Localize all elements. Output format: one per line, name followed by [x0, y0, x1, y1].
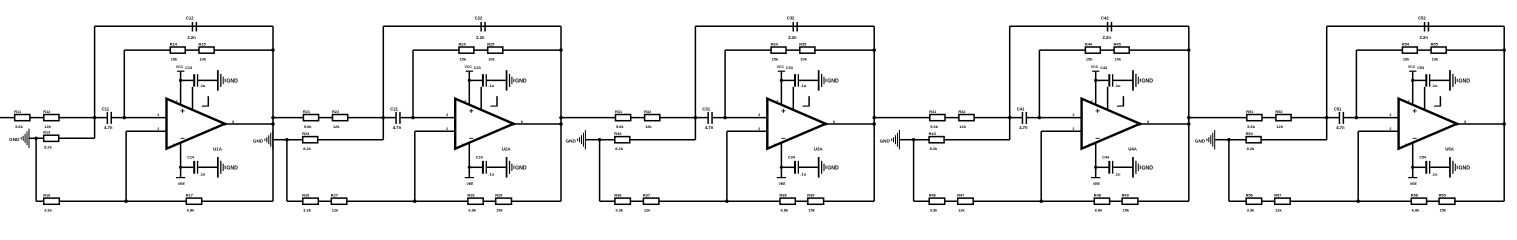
resistor R14 [170, 41, 185, 61]
node V- junction [179, 166, 182, 169]
svg-text:R59: R59 [1439, 192, 1447, 197]
op-amp U3A [758, 99, 835, 152]
svg-text:6: 6 [1147, 120, 1149, 124]
resistor R39 [807, 192, 823, 212]
svg-text:2: 2 [1073, 127, 1075, 131]
wire V+ to cap [469, 79, 482, 81]
wire inverting vertical [726, 131, 728, 201]
node output junction [1503, 122, 1506, 125]
wire left vertical (node A) [1009, 26, 1011, 140]
svg-text:C13: C13 [185, 66, 192, 70]
ground (V+ decoupling) [217, 70, 238, 91]
svg-text:R57: R57 [1274, 192, 1281, 197]
node output junction [559, 122, 562, 125]
svg-text:15k: 15k [496, 207, 503, 212]
node next-stage tap junction [1187, 116, 1190, 119]
svg-text:2.2n: 2.2n [1420, 35, 1429, 40]
svg-text:R36: R36 [614, 192, 622, 197]
svg-text:15k: 15k [772, 56, 779, 61]
resistor R56 [1246, 192, 1262, 212]
svg-text:GND: GND [827, 79, 839, 85]
svg-text:C44: C44 [1102, 156, 1110, 160]
svg-text:4: 4 [1405, 143, 1407, 147]
ground (V+ decoupling) [818, 70, 839, 91]
wire node B vertical [412, 50, 414, 118]
wire signal row right [400, 117, 456, 119]
capacitor C13 [185, 66, 206, 88]
node feedback-column junction [559, 48, 562, 51]
svg-text:R37: R37 [643, 192, 650, 197]
svg-text:VEE: VEE [467, 182, 475, 186]
node ground junction [1227, 138, 1230, 141]
svg-text:12k: 12k [645, 124, 652, 129]
wire ground vertical [599, 140, 601, 202]
wire inverting vertical [1357, 131, 1359, 201]
resistor R38 [780, 192, 796, 212]
resistor R34 [771, 41, 786, 61]
wire cap to ground [1113, 79, 1132, 81]
svg-text:4.7n: 4.7n [104, 125, 113, 130]
resistor R17 [186, 192, 202, 212]
wire signal row right [1343, 117, 1399, 119]
svg-text:C43: C43 [1100, 66, 1107, 70]
node output junction [873, 122, 876, 125]
wire ground row [1229, 139, 1327, 141]
node op-amp output [512, 123, 515, 126]
capacitor C22 [475, 16, 486, 41]
resistor R52 [1275, 109, 1291, 129]
ground (V- decoupling) [1132, 157, 1153, 178]
svg-text:R47: R47 [957, 192, 964, 197]
svg-text:GND: GND [880, 139, 891, 144]
resistor R44 [1085, 41, 1100, 61]
svg-text:8.2k: 8.2k [930, 146, 938, 151]
op-amp U1A [157, 99, 234, 152]
ground (input reference) [566, 130, 600, 150]
wire V+ to cap [181, 79, 194, 81]
capacitor C21 [390, 106, 401, 130]
node A junction [1008, 116, 1011, 119]
svg-text:4: 4 [774, 143, 776, 147]
power flag VEE [1408, 178, 1417, 186]
svg-text:C23: C23 [474, 66, 481, 70]
svg-text:C52: C52 [1418, 16, 1426, 21]
resistor R28 [467, 192, 483, 212]
wire feedback resistor row [413, 49, 561, 51]
wire signal row left [561, 117, 708, 119]
node ground junction [285, 138, 288, 141]
resistor R41 [929, 109, 945, 129]
node bottom junction [1357, 200, 1360, 203]
resistor R22 [332, 109, 348, 129]
resistor R16 [43, 192, 59, 212]
svg-text:8.2k: 8.2k [44, 145, 52, 150]
capacitor C11 [102, 106, 113, 130]
resistor R57 [1274, 192, 1290, 212]
capacitor C32 [787, 16, 798, 41]
svg-text:C51: C51 [1334, 106, 1342, 111]
power flag VEE [465, 178, 474, 186]
svg-text:GND: GND [566, 139, 577, 144]
wire top feedback row [1010, 25, 1189, 27]
svg-text:R26: R26 [302, 192, 310, 197]
resistor R37 [643, 192, 659, 212]
node output junction [1187, 122, 1190, 125]
svg-text:R16: R16 [43, 192, 51, 197]
wire V+ to cap [781, 79, 794, 81]
ground (V+ decoupling) [1449, 70, 1470, 91]
wire ground row [914, 139, 1010, 141]
wire inner stub [192, 87, 194, 110]
wire output [826, 123, 875, 125]
svg-text:3: 3 [1390, 113, 1392, 117]
resistor R23 [302, 131, 318, 151]
node op-amp output [223, 123, 226, 126]
svg-text:15k: 15k [1403, 56, 1410, 61]
node A junction [93, 116, 96, 119]
svg-text:R25: R25 [487, 41, 495, 46]
svg-text:C14: C14 [187, 156, 195, 160]
pin stub [1434, 96, 1441, 106]
svg-text:2: 2 [758, 127, 760, 131]
svg-text:8.2k: 8.2k [615, 146, 623, 151]
svg-text:12k: 12k [1275, 207, 1282, 212]
node B junction [1355, 116, 1358, 119]
node op-amp output [1138, 123, 1141, 126]
svg-text:12k: 12k [332, 207, 339, 212]
svg-text:R15: R15 [199, 41, 207, 46]
svg-text:15k: 15k [171, 56, 178, 61]
resistor R15 [199, 41, 215, 61]
wire signal row left [1189, 117, 1340, 119]
wire V+ pin [1412, 72, 1414, 105]
svg-text:VEE: VEE [178, 182, 186, 186]
svg-text:U1A: U1A [213, 146, 223, 151]
wire feedback resistor row [725, 49, 874, 51]
wire signal row right [1026, 117, 1082, 119]
wire inner stub [792, 87, 794, 110]
svg-text:15k: 15k [1440, 207, 1447, 212]
wire V+ pin [468, 72, 470, 105]
wire V- to cap [181, 166, 194, 168]
power flag VEE [176, 178, 185, 186]
wire cap to ground [487, 166, 506, 168]
svg-text:.1u: .1u [200, 83, 206, 88]
node feedback-column junction [1187, 48, 1190, 51]
node feedback-column junction [271, 48, 274, 51]
wire inner stub [1107, 87, 1109, 110]
wire top feedback row [695, 25, 874, 27]
resistor R49 [1122, 192, 1138, 212]
resistor R21 [303, 109, 319, 129]
wire signal row right [111, 117, 167, 119]
wire V- pin [1412, 143, 1414, 178]
wire left vertical (node A) [694, 26, 696, 140]
svg-text:R42: R42 [958, 109, 966, 114]
ground (input reference) [9, 129, 36, 149]
svg-text:7: 7 [1408, 99, 1410, 103]
svg-text:3.3k: 3.3k [44, 207, 52, 212]
capacitor C53 [1417, 66, 1438, 88]
svg-text:VCC: VCC [777, 65, 785, 69]
wire output column [1503, 26, 1505, 201]
node V+ junction [468, 79, 471, 82]
svg-text:R43: R43 [929, 131, 937, 136]
svg-text:10k: 10k [200, 56, 207, 61]
node V- junction [468, 166, 471, 169]
svg-text:3.3k: 3.3k [1247, 207, 1255, 212]
svg-text:6: 6 [1464, 120, 1466, 124]
svg-text:R27: R27 [331, 192, 338, 197]
node bottom junction [413, 200, 416, 203]
svg-text:12k: 12k [959, 124, 966, 129]
wire ground vertical [286, 140, 288, 202]
svg-text:4.7n: 4.7n [1019, 125, 1028, 130]
node bottom junction [1040, 200, 1043, 203]
svg-text:R53: R53 [1246, 131, 1254, 136]
resistor R45 [1114, 41, 1130, 61]
wire inner stub [480, 87, 482, 110]
svg-text:R14: R14 [170, 41, 178, 46]
wire V- to cap [1096, 166, 1109, 168]
svg-text:R51: R51 [1246, 109, 1254, 114]
svg-text:R24: R24 [459, 41, 467, 46]
capacitor C24 [476, 156, 495, 177]
svg-text:VEE: VEE [779, 182, 787, 186]
svg-text:12k: 12k [333, 124, 340, 129]
resistor R31 [615, 109, 631, 129]
svg-text:4: 4 [462, 143, 464, 147]
wire bottom feedback row [600, 200, 875, 202]
wire cap to ground [799, 79, 818, 81]
svg-text:GND: GND [1142, 166, 1154, 172]
ground (input reference) [253, 130, 287, 150]
svg-text:C42: C42 [1101, 16, 1109, 21]
svg-text:6.8k: 6.8k [1095, 207, 1103, 212]
wire V- pin [780, 143, 782, 178]
svg-text:2: 2 [446, 127, 448, 131]
svg-text:12k: 12k [644, 207, 651, 212]
resistor R46 [929, 192, 945, 212]
wire node B vertical [1038, 50, 1040, 118]
ground (input reference) [1195, 130, 1229, 150]
wire signal row left [0, 117, 108, 119]
svg-text:2.2n: 2.2n [476, 35, 485, 40]
wire ground row [36, 137, 95, 139]
node ground junction [912, 138, 915, 141]
svg-text:10k: 10k [1115, 56, 1122, 61]
wire inverting input row [1358, 130, 1398, 132]
svg-text:R56: R56 [1246, 192, 1254, 197]
resistor R59 [1439, 192, 1455, 212]
svg-text:GND: GND [827, 166, 839, 172]
svg-text:10k: 10k [800, 56, 807, 61]
svg-text:R31: R31 [615, 109, 623, 114]
svg-text:C32: C32 [787, 16, 795, 21]
wire V- to cap [1413, 166, 1426, 168]
svg-text:R29: R29 [495, 192, 503, 197]
svg-text:U3A: U3A [814, 146, 824, 151]
svg-text:.1u: .1u [488, 83, 494, 88]
wire V+ pin [180, 72, 182, 105]
wire top feedback row [95, 25, 273, 27]
svg-text:R35: R35 [799, 41, 807, 46]
svg-text:2.2n: 2.2n [1103, 35, 1112, 40]
power flag VCC [176, 65, 185, 71]
resistor R24 [459, 41, 474, 61]
svg-text:VEE: VEE [1410, 182, 1418, 186]
svg-text:7: 7 [176, 99, 178, 103]
wire cap to ground [487, 79, 506, 81]
svg-text:C12: C12 [186, 16, 194, 21]
svg-text:R49: R49 [1122, 192, 1130, 197]
svg-text:R11: R11 [14, 109, 22, 114]
node bottom junction [124, 200, 127, 203]
node output junction [271, 122, 274, 125]
node feedback-column junction [873, 48, 876, 51]
svg-text:VCC: VCC [176, 65, 184, 69]
svg-text:R41: R41 [929, 109, 937, 114]
wire V- to cap [781, 166, 794, 168]
svg-text:C22: C22 [475, 16, 483, 21]
capacitor C42 [1101, 16, 1112, 41]
capacitor C54 [1419, 156, 1438, 177]
svg-text:C21: C21 [390, 106, 398, 111]
wire output column [1188, 26, 1190, 201]
wire cap to ground [1430, 166, 1449, 168]
svg-text:12k: 12k [1276, 124, 1283, 129]
node B junction [723, 116, 726, 119]
wire signal row left [273, 117, 396, 119]
svg-text:.1u: .1u [1115, 83, 1121, 88]
resistor R43 [929, 131, 945, 151]
wire V+ pin [780, 72, 782, 105]
svg-text:3: 3 [446, 113, 448, 117]
svg-text:3: 3 [1073, 113, 1075, 117]
svg-text:6.8k: 6.8k [781, 207, 789, 212]
node V+ junction [179, 79, 182, 82]
svg-text:4: 4 [1088, 143, 1090, 147]
wire left vertical (node A) [1326, 26, 1328, 140]
svg-text:3.3k: 3.3k [615, 207, 623, 212]
svg-text:10k: 10k [488, 56, 495, 61]
power flag VEE [777, 178, 786, 186]
wire top feedback row [1327, 25, 1505, 27]
op-amp U2A [446, 99, 523, 152]
resistor R25 [487, 41, 503, 61]
svg-text:R22: R22 [332, 109, 340, 114]
svg-text:R12: R12 [43, 109, 51, 114]
wire top feedback row [383, 25, 561, 27]
wire inverting input row [415, 130, 455, 132]
svg-text:2.2n: 2.2n [187, 35, 196, 40]
resistor R51 [1246, 109, 1262, 129]
wire cap to ground [1430, 79, 1449, 81]
wire node B vertical [724, 50, 726, 118]
svg-text:8.2k: 8.2k [303, 146, 311, 151]
svg-text:GND: GND [1195, 139, 1206, 144]
svg-text:15k: 15k [808, 207, 815, 212]
svg-text:R55: R55 [1431, 41, 1439, 46]
svg-text:6.8k: 6.8k [187, 207, 195, 212]
resistor R29 [495, 192, 511, 212]
wire output column [873, 26, 875, 201]
svg-text:2: 2 [157, 127, 159, 131]
wire bottom feedback row [36, 200, 273, 202]
power flag VCC [777, 65, 786, 71]
svg-text:VCC: VCC [1408, 65, 1416, 69]
wire ground vertical [913, 140, 915, 202]
svg-text:4: 4 [173, 143, 175, 147]
svg-text:U5A: U5A [1445, 146, 1455, 151]
wire feedback resistor row [1356, 49, 1504, 51]
svg-text:GND: GND [515, 79, 527, 85]
svg-text:C34: C34 [788, 156, 796, 160]
pin stub [1117, 96, 1124, 106]
node op-amp output [824, 123, 827, 126]
wire V+ to cap [1096, 79, 1109, 81]
wire output column [560, 26, 562, 201]
svg-text:.1u: .1u [1115, 172, 1121, 177]
capacitor C23 [474, 66, 495, 88]
wire inverting input row [727, 130, 767, 132]
svg-text:2.2n: 2.2n [788, 35, 797, 40]
capacitor C34 [788, 156, 807, 177]
svg-text:5.6k: 5.6k [930, 124, 938, 129]
svg-text:GND: GND [226, 166, 238, 172]
resistor R27 [331, 192, 347, 212]
wire cap to ground [198, 79, 217, 81]
wire ground vertical [35, 138, 37, 201]
svg-text:.1u: .1u [1432, 83, 1438, 88]
node B junction [123, 116, 126, 119]
svg-text:15k: 15k [1123, 207, 1130, 212]
power flag VCC [465, 65, 474, 71]
wire cap to ground [799, 166, 818, 168]
resistor R54 [1402, 41, 1417, 61]
pin stub [803, 96, 810, 106]
svg-text:5.6k: 5.6k [1247, 124, 1255, 129]
node V+ junction [1411, 79, 1414, 82]
node feedback-column junction [1503, 48, 1506, 51]
wire V- pin [1095, 143, 1097, 178]
ground (V+ decoupling) [506, 70, 527, 91]
wire inverting input row [126, 130, 166, 132]
wire output [225, 123, 273, 125]
node B junction [411, 116, 414, 119]
node V- junction [780, 166, 783, 169]
power flag VEE [1091, 178, 1100, 186]
node A junction [382, 116, 385, 119]
ground (V- decoupling) [217, 157, 238, 178]
svg-text:C31: C31 [702, 106, 710, 111]
node V+ junction [780, 79, 783, 82]
pin stub [491, 96, 498, 106]
svg-text:8.2k: 8.2k [1247, 146, 1255, 151]
node V+ junction [1094, 79, 1097, 82]
resistor R12 [43, 109, 59, 129]
svg-text:.1u: .1u [200, 172, 206, 177]
svg-text:R58: R58 [1411, 192, 1419, 197]
svg-text:.1u: .1u [800, 83, 806, 88]
svg-text:.1u: .1u [488, 172, 494, 177]
node V- junction [1094, 166, 1097, 169]
node B junction [1038, 116, 1041, 119]
ground (input reference) [880, 130, 914, 150]
wire feedback resistor row [124, 49, 273, 51]
svg-text:C11: C11 [102, 106, 110, 111]
svg-text:R44: R44 [1085, 41, 1093, 46]
